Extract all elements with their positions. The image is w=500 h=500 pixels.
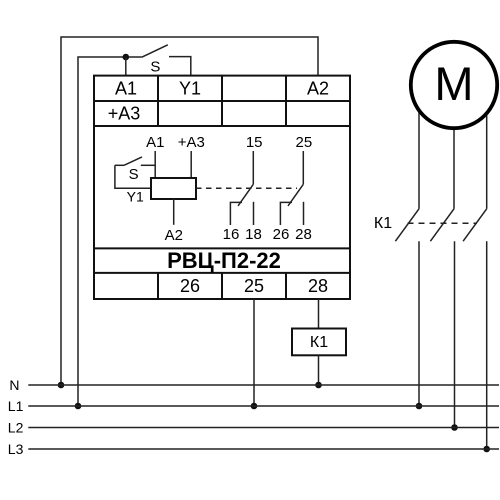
contact 25 blade: [288, 184, 303, 206]
contact terminal 26: [280, 202, 292, 225]
svg-text:25: 25: [244, 276, 264, 296]
bottom terminal column divider 2: [221, 273, 223, 299]
svg-text:N: N: [9, 377, 19, 393]
relay module РВЦ-П2-22 outline: [94, 76, 350, 299]
bottom terminal column divider 1: [157, 273, 159, 299]
relay coil box: [151, 178, 196, 199]
wire from N line up and over to terminal A2: [61, 37, 318, 385]
node junction dot frame wire on N: [58, 382, 65, 389]
contactor mechanical link dashed line: [408, 222, 478, 224]
wire K1 coil down to N: [318, 355, 320, 385]
label band top line: [94, 247, 350, 249]
svg-text:Y1: Y1: [179, 79, 201, 99]
motor M circle: [411, 42, 497, 128]
svg-text:Y1: Y1: [127, 189, 144, 205]
contact terminal 16: [230, 202, 242, 225]
svg-text:A1: A1: [146, 134, 164, 151]
contactor contact K1 blade 1: [395, 209, 419, 241]
svg-text:25: 25: [296, 134, 313, 151]
node junction dot at S input: [123, 54, 130, 61]
node junction dot motor lead on L2: [451, 424, 458, 431]
svg-text:A2: A2: [307, 79, 329, 99]
svg-text:L3: L3: [8, 441, 24, 457]
motor lead 2: [453, 120, 455, 209]
terminal grid row line 2: [94, 125, 350, 127]
inner wire coil to A2: [173, 199, 175, 225]
inner switch S bracket wire to coil: [115, 165, 151, 188]
svg-text:26: 26: [273, 226, 290, 243]
mechanical link dashed line coil to contacts: [196, 187, 297, 189]
svg-text:РВЦ-П2-22: РВЦ-П2-22: [167, 248, 281, 273]
inner switch S blade: [124, 157, 142, 165]
top terminal column divider 2: [221, 76, 223, 126]
node junction dot on L1: [251, 403, 258, 410]
contactor coil K1 box: [292, 329, 346, 356]
wire terminal 25 down to L1: [253, 299, 255, 406]
inner wire +A3 to coil: [190, 151, 192, 178]
svg-text:+A3: +A3: [178, 134, 205, 151]
contact 15 common wire: [252, 151, 254, 184]
svg-text:28: 28: [295, 226, 312, 243]
power line L3: [28, 448, 499, 450]
contact terminal 18: [253, 202, 255, 225]
label band bottom line: [94, 272, 350, 274]
terminal grid row line 1: [94, 100, 350, 102]
top terminal column divider 3: [285, 76, 287, 126]
node junction dot frame wire on L1: [75, 403, 82, 410]
svg-text:16: 16: [223, 226, 240, 243]
switch S blade: [142, 45, 168, 57]
contact 15 blade: [238, 184, 253, 206]
power line L2: [28, 427, 499, 429]
power line N: [28, 384, 499, 386]
wire terminal 28 down to contactor coil K1: [318, 299, 320, 329]
svg-text:A2: A2: [165, 227, 183, 244]
node junction dot motor lead on L3: [483, 446, 490, 453]
wire contact 2 down to L2: [454, 241, 456, 427]
svg-text:L2: L2: [8, 419, 24, 435]
svg-text:К1: К1: [310, 334, 328, 351]
svg-text:+A3: +A3: [108, 104, 141, 124]
wire contact 1 down to L1: [418, 241, 420, 406]
inner wire A1 to coil: [154, 151, 156, 178]
bottom terminal column divider 3: [285, 273, 287, 299]
wire switch S output to terminal Y1: [169, 57, 191, 76]
svg-text:28: 28: [308, 276, 328, 296]
contact terminal 28: [303, 202, 305, 225]
svg-text:26: 26: [180, 276, 200, 296]
power line L1: [28, 405, 499, 407]
svg-text:S: S: [129, 166, 139, 183]
node junction dot motor lead on L1: [416, 403, 423, 410]
contactor contact K1 blade 2: [430, 209, 454, 241]
svg-text:К1: К1: [374, 215, 392, 232]
svg-text:L1: L1: [8, 398, 24, 414]
wire contact 3 down to L3: [486, 241, 488, 449]
svg-text:A1: A1: [115, 79, 137, 99]
wire junction to terminal A1: [125, 57, 127, 76]
motor lead 3: [486, 100, 488, 209]
top terminal column divider 1: [157, 76, 159, 126]
svg-text:18: 18: [245, 226, 262, 243]
motor lead 1: [418, 100, 420, 209]
node junction dot on N: [315, 382, 322, 389]
inner switch S left contact: [115, 164, 124, 166]
svg-text:М: М: [434, 57, 473, 110]
wire from L1 line up to switch S input: [78, 57, 142, 406]
contactor contact K1 blade 3: [463, 209, 487, 241]
svg-text:S: S: [150, 58, 160, 75]
inner switch S right contact to A1 wire: [141, 164, 155, 166]
contact 25 common wire: [302, 151, 304, 184]
svg-text:15: 15: [246, 134, 263, 151]
